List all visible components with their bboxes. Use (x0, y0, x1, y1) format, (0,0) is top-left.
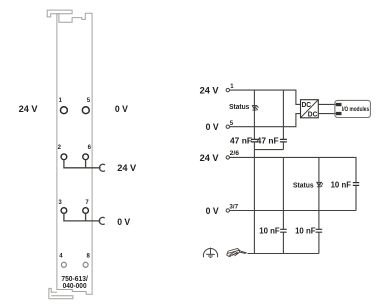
wire left vertical lower section (282, 157, 284, 253)
wire second 47nF branch (282, 90, 284, 150)
wire bottom shield rail (248, 253, 319, 255)
svg-text:0 V: 0 V (206, 122, 220, 133)
terminal contact 7 (83, 208, 89, 214)
I/O modules box (335, 100, 371, 117)
capacitor C2 47 nF plates (280, 139, 287, 142)
svg-text:7: 7 (85, 200, 89, 206)
module top power-jumper bar (47, 10, 72, 17)
svg-text:5: 5 (87, 98, 91, 104)
svg-text:24 V: 24 V (19, 104, 39, 115)
clamp arc 0 V (99, 217, 104, 224)
terminal circle pins 3/7 (226, 209, 229, 212)
terminal circle pins 2/6 (226, 156, 229, 159)
svg-text:2/6: 2/6 (230, 151, 240, 157)
wire status LED branch upper (253, 90, 255, 253)
terminal contact 5 (82, 107, 89, 114)
svg-text:1: 1 (230, 84, 234, 90)
capacitor C5 10 nF plates (316, 229, 323, 232)
terminal circle pin 5 (226, 125, 229, 128)
svg-text:10 nF: 10 nF (259, 227, 279, 236)
svg-text:1: 1 (59, 98, 63, 104)
ground earth symbol (203, 248, 217, 258)
svg-text:3: 3 (58, 200, 62, 206)
svg-text:10 nF: 10 nF (295, 227, 315, 236)
wire status LED branch lower (318, 157, 320, 253)
svg-text:24 V: 24 V (200, 153, 220, 164)
svg-text:47 nF: 47 nF (257, 137, 279, 146)
DC/DC converter box (301, 100, 319, 119)
wires DC/DC outputs to I/O modules (318, 104, 336, 113)
wire pins 2/6 to 24V clamp (64, 160, 101, 168)
svg-text:Status: Status (229, 102, 249, 111)
DIN rail icon (227, 249, 247, 257)
terminal contact 1 (60, 107, 67, 114)
svg-text:24 V: 24 V (117, 163, 137, 174)
svg-text:I/O modules: I/O modules (342, 106, 369, 113)
svg-text:6: 6 (88, 145, 92, 151)
svg-text:0 V: 0 V (206, 206, 220, 217)
svg-text:0 V: 0 V (115, 104, 129, 115)
capacitor C4 10 nF plates (280, 229, 287, 232)
wire 0V rail to DC/DC bottom input (230, 114, 301, 127)
svg-text:3/7: 3/7 (229, 204, 238, 210)
module body outline 750-613 (57, 13, 92, 294)
wire jog joining cap bottoms (254, 149, 283, 151)
svg-text:4: 4 (59, 254, 63, 260)
capacitor C1 47 nF plates (251, 139, 258, 142)
LED status upper (252, 106, 258, 111)
module bottom release hook (49, 288, 73, 298)
svg-text:10 nF: 10 nF (331, 180, 351, 189)
svg-text:47 nF: 47 nF (230, 137, 252, 146)
terminal contact 6 (83, 154, 89, 160)
LED status lower (317, 182, 323, 187)
wire 24V rail to DC/DC top input (230, 90, 301, 104)
svg-text:8: 8 (87, 254, 91, 260)
terminal contact 4 unused (61, 262, 66, 267)
wire 24V field rail to right cap (230, 157, 356, 210)
capacitor C3 10 nF plates (353, 183, 359, 186)
svg-text:DC: DC (308, 109, 318, 118)
terminal contact 8 unused (83, 262, 88, 267)
terminal contact 2 (61, 154, 67, 160)
svg-text:040-000: 040-000 (63, 283, 87, 290)
svg-text:DC: DC (302, 100, 312, 109)
svg-text:Status: Status (293, 180, 314, 189)
wire 0V field rail (230, 210, 356, 212)
wire pins 3/7 to 0V clamp (64, 214, 101, 221)
svg-text:24 V: 24 V (200, 86, 220, 97)
svg-text:2: 2 (58, 145, 62, 151)
terminal contact 3 (61, 208, 67, 214)
terminal circle pin 1 (226, 88, 229, 91)
svg-text:5: 5 (230, 121, 234, 127)
clamp arc 24 V (99, 164, 104, 171)
svg-text:0 V: 0 V (117, 217, 131, 228)
